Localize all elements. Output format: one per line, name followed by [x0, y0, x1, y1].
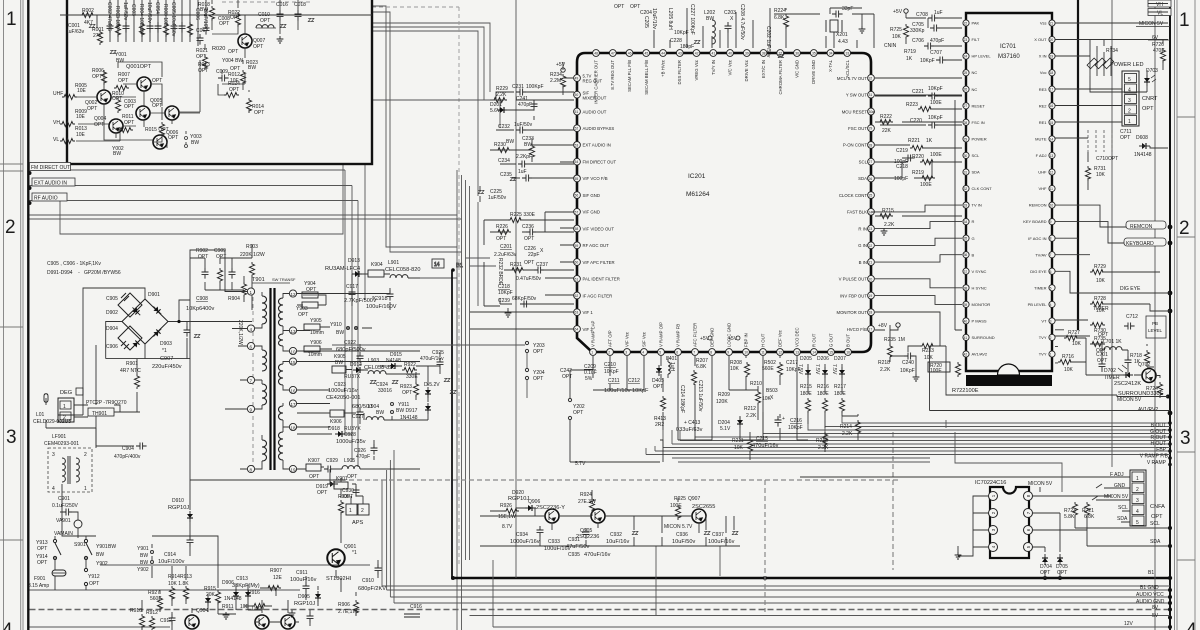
svg-text:18: 18 [291, 426, 297, 431]
node B1 junctions [451, 576, 1062, 580]
pin 17 HVCO F/B [847, 326, 875, 333]
pin 4 [989, 543, 998, 552]
pin 15 RE1 [1039, 119, 1055, 125]
svg-text:V/C Vcc: V/C Vcc [728, 59, 733, 75]
bus 12V [30, 560, 1171, 627]
svg-text:OPT: OPT [37, 560, 47, 566]
svg-text:DRIVE Vcc: DRIVE Vcc [744, 59, 749, 81]
svg-text:UHF: UHF [1038, 170, 1047, 175]
svg-text:C219: C219 [896, 148, 908, 154]
svg-text:10uF/10v: 10uF/10v [651, 8, 657, 29]
svg-text:OPT: OPT [37, 546, 47, 552]
svg-text:54: 54 [575, 160, 579, 164]
pin 12 DEF Vcc [777, 329, 784, 355]
svg-text:4: 4 [1186, 620, 1197, 630]
svg-text:1uF/50v: 1uF/50v [122, 2, 128, 21]
svg-text:C205: C205 [643, 16, 649, 28]
transistor Q905 2SC2236 [591, 509, 605, 523]
wire y345 link [332, 345, 527, 398]
svg-text:R216: R216 [817, 384, 829, 390]
svg-text:560E: 560E [150, 596, 162, 602]
wire RF AUDIO net [30, 200, 359, 202]
node FM DIRECT OUT [30, 163, 71, 171]
svg-text:MUTE: MUTE [1035, 137, 1047, 142]
svg-text:V RAMP O/P: V RAMP O/P [659, 322, 664, 347]
svg-text:6: 6 [676, 351, 678, 355]
svg-text:6.8K: 6.8K [1084, 514, 1095, 520]
pin 27 RESET [963, 103, 985, 109]
svg-text:+: + [782, 416, 785, 422]
svg-text:OPT: OPT [229, 87, 239, 93]
svg-text:C913: C913 [236, 576, 248, 582]
svg-text:R224: R224 [774, 8, 786, 14]
svg-text:BW: BW [191, 140, 199, 146]
svg-text:AFC FILTER: AFC FILTER [693, 323, 698, 347]
transistor Q902 [281, 615, 295, 629]
svg-text:OPT: OPT [118, 78, 128, 84]
svg-text:680pF/2KV: 680pF/2KV [358, 586, 386, 592]
pin 21 Vss [1040, 20, 1055, 26]
pin 7 [1024, 509, 1033, 518]
svg-text:BW: BW [200, 7, 208, 13]
svg-text:32: 32 [869, 77, 873, 81]
pin 38 H SYNC [963, 285, 987, 291]
svg-text:40: 40 [728, 52, 732, 56]
svg-text:H OUT: H OUT [761, 333, 766, 347]
svg-text:OPT: OPT [198, 68, 208, 74]
svg-text:V SYNC: V SYNC [972, 269, 987, 274]
svg-text:C910: C910 [362, 578, 374, 584]
wire vertical bundle center [457, 170, 470, 630]
node VL box [1148, 9, 1171, 16]
pin 33 TV IN [963, 202, 982, 208]
pin 6 DIG EYE [1030, 268, 1055, 274]
svg-text:IC201: IC201 [688, 173, 706, 180]
svg-text:61: 61 [575, 277, 579, 281]
pin 32 CLK CONT [963, 185, 992, 191]
border double line left [20, 0, 22, 630]
svg-text:5: 5 [1050, 286, 1052, 290]
wires below IC [570, 356, 858, 462]
pin 23 R IN [858, 225, 874, 232]
svg-text:17: 17 [869, 328, 873, 332]
row tick marks right [1177, 117, 1195, 560]
svg-text:+B HVcc: +B HVcc [661, 59, 666, 77]
svg-text:1uF/63v: 1uF/63v [66, 29, 85, 35]
svg-text:R904: R904 [228, 296, 240, 302]
svg-text:RE3: RE3 [1039, 87, 1048, 92]
transistor Q006 [153, 135, 167, 149]
pin 15 [289, 358, 296, 365]
pin 16 [289, 386, 296, 393]
svg-text:50: 50 [575, 93, 579, 97]
svg-text:FAST BLK: FAST BLK [847, 210, 867, 215]
bus bundle to right labels [646, 416, 1170, 455]
svg-text:K906: K906 [330, 419, 342, 425]
svg-text:VIF Vcc: VIF Vcc [625, 331, 630, 347]
svg-text:12V: 12V [1124, 621, 1134, 627]
pin 63 VIF 1 [574, 309, 594, 316]
svg-text:120K: 120K [716, 399, 728, 405]
pin 36 B [963, 252, 975, 258]
svg-text:*1: *1 [162, 348, 167, 354]
svg-text:1M: 1M [898, 337, 905, 343]
svg-text:26: 26 [964, 88, 968, 92]
svg-text:C914: C914 [164, 552, 176, 558]
resistor R720 100E [928, 362, 950, 372]
svg-text:AUDIO VCC: AUDIO VCC [1136, 592, 1164, 598]
svg-text:L701 1K: L701 1K [1103, 339, 1122, 345]
svg-text:DIG EYE: DIG EYE [1120, 286, 1141, 292]
svg-text:D703: D703 [1146, 68, 1158, 74]
svg-text:SCL: SCL [1150, 521, 1160, 527]
svg-text:D206: D206 [817, 356, 829, 362]
svg-text:11: 11 [761, 351, 765, 355]
svg-text:33: 33 [846, 52, 850, 56]
svg-text:D207: D207 [834, 356, 846, 362]
svg-text:4: 4 [1136, 509, 1139, 515]
pin 20 X OUT [1034, 36, 1055, 42]
svg-text:LF901: LF901 [52, 434, 66, 440]
svg-text:53: 53 [575, 143, 579, 147]
bottom left wires [152, 250, 378, 622]
svg-text:OPT: OPT [230, 66, 240, 72]
transistor Q008 [137, 77, 151, 91]
left column wires [470, 62, 574, 329]
svg-text:OPT: OPT [152, 78, 162, 84]
svg-text:C929: C929 [326, 458, 338, 464]
svg-text:FM DIRECT OUT: FM DIRECT OUT [583, 160, 617, 165]
svg-text:1K: 1K [926, 138, 933, 144]
svg-text:VHF: VHF [1039, 186, 1048, 191]
dashed top [222, 2, 459, 7]
svg-text:2.2K: 2.2K [884, 222, 895, 228]
svg-text:PB: PB [1152, 321, 1158, 326]
ground marks row [223, 612, 230, 619]
svg-text:D608: D608 [1136, 135, 1148, 141]
diode D908 [245, 589, 251, 600]
svg-text:D913: D913 [348, 258, 360, 264]
svg-text:VT: VT [1041, 319, 1047, 324]
svg-text:C712: C712 [1126, 314, 1138, 320]
resistor network 4x [1087, 52, 1114, 76]
svg-text:FILT: FILT [972, 37, 980, 42]
svg-text:OPT: OPT [533, 376, 543, 382]
IC U701 M37160 outline [966, 13, 1052, 371]
svg-text:*C918: *C918 [372, 296, 388, 302]
transformer core [269, 288, 271, 470]
svg-text:R217: R217 [834, 384, 846, 390]
svg-text:R219: R219 [912, 170, 924, 176]
svg-text:R734: R734 [1106, 48, 1118, 54]
svg-text:HVCO F/B: HVCO F/B [847, 327, 867, 332]
svg-text:SECAM BELL F/B: SECAM BELL F/B [644, 60, 649, 95]
svg-text:20: 20 [869, 277, 873, 281]
svg-text:6: 6 [1050, 270, 1052, 274]
pin 1 [247, 288, 254, 295]
capacitor C702 [1125, 356, 1132, 367]
svg-text:57: 57 [575, 210, 579, 214]
svg-text:V RAMP: V RAMP [1147, 460, 1167, 466]
svg-text:UHF: UHF [53, 91, 63, 97]
svg-text:62: 62 [575, 294, 579, 298]
transformer side wires [225, 282, 420, 469]
pin 17 [289, 400, 296, 407]
pin 46 SECAM PLL F/B [626, 50, 633, 92]
svg-text:D901: D901 [148, 292, 160, 298]
svg-text:9: 9 [727, 351, 729, 355]
svg-text:V RAMP CAP: V RAMP CAP [591, 320, 596, 347]
svg-text:T901: T901 [252, 277, 265, 283]
svg-text:1: 1 [63, 404, 66, 410]
svg-text:10KpF: 10KpF [928, 115, 943, 121]
svg-text:DEF Vcc: DEF Vcc [778, 329, 783, 347]
svg-text:BW: BW [336, 330, 344, 336]
svg-text:100E: 100E [930, 152, 942, 158]
svg-text:DEG: DEG [60, 390, 72, 396]
svg-text:34: 34 [829, 52, 833, 56]
svg-text:OPT: OPT [1057, 570, 1067, 576]
svg-text:CNFA: CNFA [1150, 504, 1165, 510]
cluster wires [480, 490, 740, 546]
svg-text:DSS FILTER: DSS FILTER [677, 60, 682, 85]
svg-text:VH: VH [1156, 2, 1163, 8]
wires above IC [654, 8, 874, 48]
capacitor C909b [307, 612, 314, 623]
svg-text:R907: R907 [270, 568, 282, 574]
svg-text:D904: D904 [106, 326, 118, 332]
svg-text:RU37X: RU37X [344, 374, 361, 380]
pin 37 V SYNC [963, 268, 987, 274]
svg-text:2.2M: 2.2M [550, 78, 561, 84]
svg-text:LOGIC GND: LOGIC GND [727, 323, 732, 347]
svg-text:22K: 22K [882, 128, 892, 134]
svg-text:24: 24 [964, 55, 968, 59]
svg-text:470pF/400v: 470pF/400v [114, 454, 141, 460]
svg-text:RF AUDIO: RF AUDIO [34, 196, 58, 202]
border line outer-left [3, 0, 5, 630]
svg-text:AUDIO OUT: AUDIO OUT [583, 109, 607, 114]
svg-text:OPT: OPT [1120, 135, 1130, 141]
svg-text:2.2K: 2.2K [496, 92, 507, 98]
svg-text:4.43: 4.43 [838, 39, 848, 45]
svg-text:Vss: Vss [1040, 21, 1047, 26]
bus B1 GND [30, 470, 1171, 590]
svg-text:43: 43 [678, 52, 682, 56]
svg-text:C708: C708 [916, 12, 928, 18]
svg-text:220K,1/2W: 220K,1/2W [237, 320, 243, 345]
svg-text:100pF: 100pF [894, 176, 908, 182]
svg-text:OPT: OPT [1151, 514, 1163, 520]
box PB LEVEL [1146, 316, 1166, 338]
svg-text:17: 17 [1050, 88, 1054, 92]
svg-text:220uF/450v: 220uF/450v [152, 364, 182, 370]
svg-text:5: 5 [659, 351, 661, 355]
svg-text:V/C GND: V/C GND [795, 60, 800, 78]
pin 56 SIF GND [574, 192, 600, 199]
wires [380, 352, 440, 420]
svg-text:APS: APS [352, 520, 363, 526]
transistor Q007 [238, 34, 252, 48]
pin 22 G IN [858, 242, 874, 249]
pin 26 NC [963, 86, 977, 92]
svg-text:C710OPT: C710OPT [1096, 156, 1118, 162]
svg-text:10K: 10K [734, 445, 744, 451]
psu wires 3 [46, 428, 96, 590]
svg-text:330E: 330E [406, 374, 418, 380]
svg-text:OPT: OPT [317, 490, 327, 496]
svg-text:60: 60 [575, 261, 579, 265]
svg-text:F ADJ: F ADJ [1036, 153, 1047, 158]
svg-text:12: 12 [291, 292, 297, 297]
svg-text:Y902: Y902 [137, 567, 149, 573]
svg-text:22pF: 22pF [528, 252, 539, 258]
svg-text:R722100E: R722100E [952, 388, 979, 394]
svg-text:14: 14 [812, 351, 816, 355]
svg-text:D-5.2V: D-5.2V [424, 382, 440, 388]
svg-text:1: 1 [6, 9, 17, 30]
svg-text:6.8K: 6.8K [774, 15, 785, 21]
svg-text:BW: BW [335, 360, 343, 366]
svg-text:C916: C916 [410, 604, 422, 610]
svg-text:100E: 100E [930, 368, 942, 374]
svg-text:5.1V: 5.1V [720, 426, 731, 432]
svg-text:28: 28 [964, 121, 968, 125]
svg-text:X OUT: X OUT [1034, 37, 1047, 42]
svg-text:10K: 10K [1072, 341, 1082, 347]
pin 11 VHF [1039, 185, 1056, 191]
svg-text:R221: R221 [908, 138, 920, 144]
svg-text:PAL IDENT FILTER: PAL IDENT FILTER [583, 277, 620, 282]
svg-text:H SYNC: H SYNC [972, 285, 987, 290]
svg-text:R911: R911 [222, 604, 234, 610]
diode D405 OPT [656, 365, 662, 376]
svg-text:FBP: FBP [1156, 447, 1166, 453]
pin 7 AFC FILTER [692, 323, 699, 356]
svg-text:44: 44 [661, 52, 665, 56]
svg-text:37: 37 [964, 270, 968, 274]
svg-text:4K7: 4K7 [84, 20, 93, 26]
svg-text:180E: 180E [834, 391, 846, 397]
svg-text:G: G [972, 236, 975, 241]
wires between ICs [872, 13, 962, 216]
svg-text:27: 27 [869, 160, 873, 164]
svg-text:0.47uF/50v: 0.47uF/50v [516, 276, 542, 282]
svg-text:OPT: OPT [402, 390, 412, 396]
svg-text:10KpF: 10KpF [604, 369, 619, 375]
psu wires 2 [46, 345, 140, 446]
tuner block outline [67, 0, 372, 164]
svg-text:FSC OUT: FSC OUT [848, 126, 867, 131]
svg-text:OPT: OPT [562, 374, 572, 380]
svg-text:19: 19 [1050, 55, 1054, 59]
svg-text:42: 42 [964, 353, 968, 357]
svg-text:C234: C234 [498, 158, 510, 164]
svg-text:C933: C933 [548, 539, 560, 545]
pin 3 VIF Vcc [624, 331, 631, 355]
svg-text:C906: C906 [106, 344, 118, 350]
pin 35 G [963, 235, 975, 241]
pin 38 EXT/C IN [760, 50, 767, 79]
svg-text:R214: R214 [840, 424, 852, 430]
svg-text:OPT: OPT [124, 104, 134, 110]
svg-text:47: 47 [611, 52, 615, 56]
svg-text:+5V: +5V [893, 9, 903, 15]
svg-text:180E: 180E [817, 391, 829, 397]
primary dashed [252, 290, 254, 470]
svg-text:15E,1W: 15E,1W [498, 514, 516, 520]
pin 6 [1024, 526, 1033, 535]
svg-text:VIF VIDEO OUT: VIF VIDEO OUT [583, 226, 615, 231]
svg-text:180E: 180E [800, 391, 812, 397]
svg-text:470uF/16v: 470uF/16v [752, 443, 779, 449]
pin 51 AUDIO OUT [574, 108, 607, 115]
pin 18 [289, 423, 296, 430]
svg-text:23: 23 [964, 38, 968, 42]
pin 57 VIF GND [574, 208, 600, 215]
svg-text:OPT: OPT [496, 236, 506, 242]
diode D901 [151, 304, 163, 316]
svg-text:100uF/16v: 100uF/16v [708, 539, 735, 545]
svg-text:D910: D910 [172, 498, 184, 504]
svg-text:R926: R926 [500, 503, 512, 509]
svg-text:51: 51 [575, 110, 579, 114]
svg-text:D918: D918 [328, 426, 340, 432]
component row top: caps and resistors with rotated labels [110, 0, 198, 46]
svg-text:15: 15 [829, 351, 833, 355]
svg-text:RGP10J: RGP10J [294, 601, 315, 607]
wires IC201 to IC701 [875, 100, 962, 330]
svg-text:IC70224C16: IC70224C16 [975, 480, 1006, 486]
svg-text:100E: 100E [930, 100, 942, 106]
svg-text:Y SW OUT: Y SW OUT [846, 93, 868, 98]
svg-text:SDA: SDA [1117, 516, 1128, 522]
svg-text:X201: X201 [836, 32, 848, 38]
svg-text:REG OUT: REG OUT [583, 79, 603, 84]
svg-text:VH: VH [53, 120, 60, 126]
svg-text:3: 3 [52, 452, 55, 458]
svg-text:16: 16 [846, 351, 850, 355]
svg-text:MICON 5V: MICON 5V [1028, 481, 1053, 487]
pin 9 LOGIC GND [726, 323, 733, 356]
wire nested corners below [646, 412, 930, 462]
border double line right [1174, 0, 1176, 630]
svg-text:3: 3 [1180, 428, 1191, 449]
svg-text:31: 31 [964, 171, 968, 175]
pin 40 V/C Vcc [727, 50, 734, 76]
svg-text:D205: D205 [800, 356, 812, 362]
svg-text:SIF GND: SIF GND [583, 193, 600, 198]
wires tuner to IC left column [372, 23, 490, 306]
svg-text:BW: BW [524, 142, 532, 148]
primary winding 1 [262, 296, 267, 324]
svg-text:MICON 5V: MICON 5V [1117, 397, 1142, 403]
svg-text:OPT: OPT [614, 4, 624, 10]
svg-text:CEM40293-001: CEM40293-001 [44, 441, 79, 447]
svg-text:033uF/63v: 033uF/63v [676, 427, 703, 433]
pin 5 [1024, 543, 1033, 552]
svg-text:TVY: TVY [1039, 335, 1047, 340]
svg-text:POWER LED: POWER LED [1110, 62, 1144, 68]
bridge rectifier D901-D904 [118, 293, 168, 350]
node B1 [451, 268, 455, 272]
pin 12 UHF [1038, 169, 1055, 175]
pin 35 DRIVE GND [810, 50, 817, 84]
svg-text:REMCON: REMCON [1130, 224, 1153, 230]
svg-text:1K: 1K [906, 56, 913, 62]
svg-text:18: 18 [869, 311, 873, 315]
svg-text:R210: R210 [750, 381, 762, 387]
